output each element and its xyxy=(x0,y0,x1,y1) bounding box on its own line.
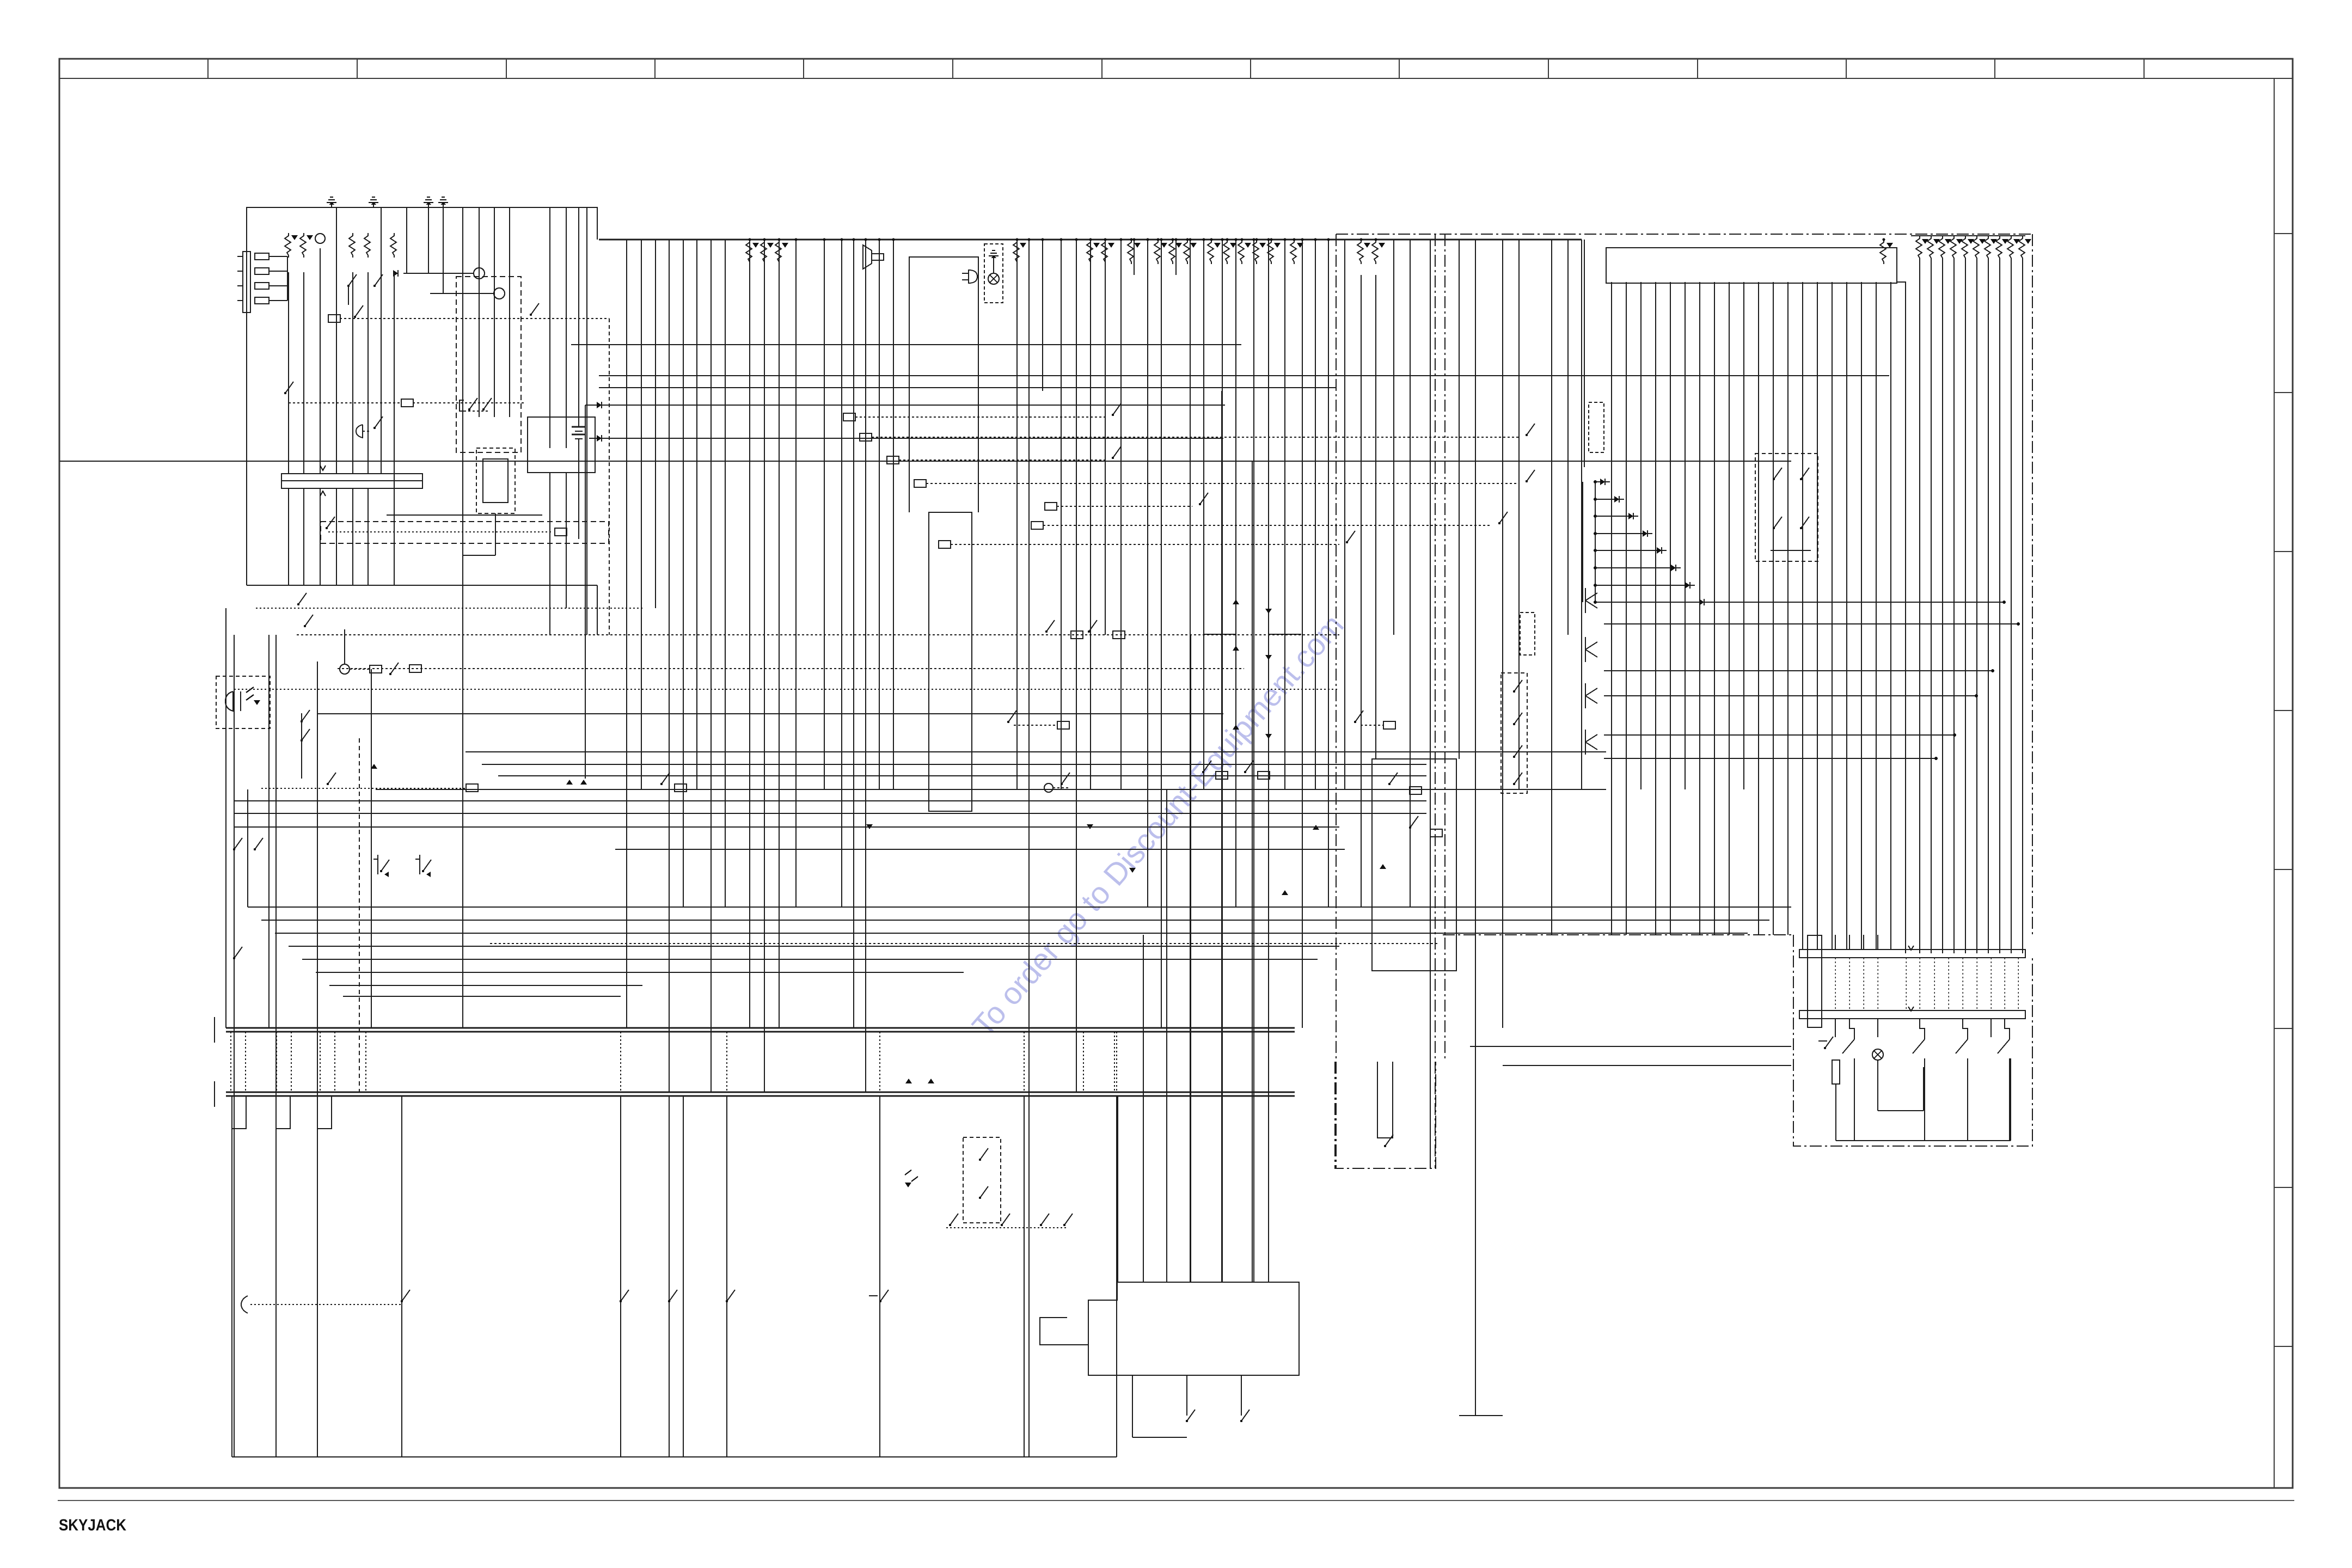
resistors R1 R2 with diodes xyxy=(285,233,313,258)
lamp L3 xyxy=(1044,773,1070,792)
wire verticals bottom xyxy=(232,1096,1117,1457)
relay control rows xyxy=(843,403,1535,548)
diode pair D31 D32 xyxy=(566,780,587,785)
wire links to TB region xyxy=(1470,1046,1791,1065)
top supply bus xyxy=(599,240,1582,789)
contactor symbols bottom xyxy=(241,1290,735,1313)
relay row K10 xyxy=(660,773,687,792)
limit switch E1b xyxy=(415,855,431,877)
connector J1 with fuses F1-F4 xyxy=(237,252,287,313)
wire taps right bundle xyxy=(1585,588,2020,760)
wire jogs below bus xyxy=(232,1096,332,1129)
dashed boundary left-mid xyxy=(359,738,360,1092)
lamp DS1 dashed xyxy=(984,244,1003,303)
resistors R3 R4 R5 xyxy=(349,233,396,258)
wire verticals left xyxy=(226,608,371,1457)
controller U1 lower xyxy=(929,512,972,811)
relay row K7 xyxy=(1007,710,1069,729)
terminal strip TS1 xyxy=(281,465,422,496)
switch S3 with dashed link xyxy=(328,303,609,635)
module M1 xyxy=(1372,759,1456,971)
relay row K9 xyxy=(1354,710,1395,729)
pressure switch dashed xyxy=(1589,402,1604,452)
dash-dot enclosure bottom-right xyxy=(1443,935,2032,1146)
relay block on TB xyxy=(1808,935,1822,1027)
horn H2 xyxy=(356,416,383,438)
horn H1 dashed enclosure xyxy=(216,676,270,728)
relay K2 dashed enclosure xyxy=(476,448,515,513)
dash-dot boundary left xyxy=(1336,234,1337,1168)
switch stack S12 xyxy=(301,710,310,779)
resistor R30 xyxy=(1818,1037,1840,1141)
switch column S20 xyxy=(869,1290,889,1302)
switch S4 dashed row xyxy=(284,382,524,407)
wires into U2 xyxy=(1118,391,1269,1282)
wire verticals control section xyxy=(1345,240,1584,1416)
wire bottom bus xyxy=(232,1456,1117,1457)
wires below relay K1 xyxy=(463,473,566,635)
dash-dot enclosure bottom xyxy=(1335,1062,1436,1168)
battery B1 xyxy=(572,427,586,439)
switch S11 xyxy=(233,947,242,959)
LED indicator xyxy=(905,1170,918,1187)
links TB1-TB2 xyxy=(1835,958,2018,1010)
dash-dot boundary top xyxy=(1336,234,2032,235)
dashed control row C xyxy=(234,689,1339,690)
dashed control row A xyxy=(297,615,1339,639)
connector CN1 xyxy=(1606,248,1897,283)
wire collector below TB xyxy=(1836,1058,2011,1141)
horn symbol xyxy=(863,245,884,269)
resistor bank on top bus xyxy=(746,238,1893,264)
contact pair CP1 xyxy=(460,398,492,411)
controller U1 upper xyxy=(909,257,978,512)
relay K6 dashed xyxy=(963,1137,1001,1223)
control module U2 xyxy=(1040,1282,1299,1375)
relay K1 xyxy=(528,417,595,473)
diode ladder D10-D17 xyxy=(1583,479,1709,605)
dashed enclosure E2 xyxy=(321,517,609,543)
gauge G1 xyxy=(393,268,485,279)
svg-text:SKYJACK: SKYJACK xyxy=(59,1516,126,1534)
ground symbols above top-left block xyxy=(327,197,448,207)
wire harness rows xyxy=(248,907,1791,996)
limit switch E1a xyxy=(373,855,389,877)
wire verticals top-left block xyxy=(289,207,725,1092)
AND gate symbol xyxy=(962,270,977,283)
dashed control row D xyxy=(261,773,478,792)
dashed control row B xyxy=(338,665,1244,672)
switch row above U2 xyxy=(946,1214,1073,1228)
lamp L2 cluster xyxy=(340,629,399,675)
SKYJACK logo xyxy=(59,1516,126,1534)
watermark text xyxy=(966,608,1351,1044)
wire rows mid xyxy=(234,752,1606,849)
relay K3 dashed xyxy=(1501,673,1527,793)
wire long horizontals xyxy=(60,345,1889,779)
lamp DS2 xyxy=(1872,1049,1924,1111)
diode matrix D20-D25 xyxy=(1203,599,1301,739)
pins below TB2 xyxy=(1835,1019,2010,1141)
wire K1 feed xyxy=(387,514,542,516)
resistor bank right xyxy=(1916,236,2031,260)
wire links between buses xyxy=(231,1032,1117,1092)
wires below U2 xyxy=(1132,1375,1249,1437)
dash-dot boundary right xyxy=(1435,234,1445,1168)
wire top-left battery supply rails xyxy=(247,207,597,635)
limit switch LS1 dashed xyxy=(1755,454,1818,561)
wires into TB1 xyxy=(1835,935,1878,950)
indicator lamp L1 xyxy=(315,234,325,243)
relay K4 dashed xyxy=(1520,612,1535,655)
gauge G2 xyxy=(430,288,505,299)
wire bundle under CN1 xyxy=(1612,282,1906,953)
wire drops from top bus xyxy=(748,238,1330,1457)
power bus BB2 xyxy=(215,1081,1295,1107)
relay row K8 xyxy=(1202,761,1270,779)
wire bundle right xyxy=(1920,258,2023,953)
switch S1 xyxy=(347,274,357,305)
dashed enclosure E1 xyxy=(456,277,521,452)
diode D30 xyxy=(371,764,377,769)
scattered diodes xyxy=(866,824,1319,1083)
terminal bar TB1 xyxy=(1799,946,2025,958)
terminal bar TB2 xyxy=(1799,1007,2025,1019)
switch S10 xyxy=(233,838,263,850)
switch S2 xyxy=(373,274,383,287)
switch S15 xyxy=(297,593,307,605)
dash-dot vertical right bundle xyxy=(2032,234,2033,935)
power bus BB1 xyxy=(215,1017,1295,1043)
bus segment right xyxy=(1911,235,2025,236)
